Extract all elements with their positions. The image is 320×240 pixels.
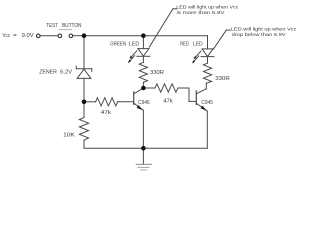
svg-text:LED: LED (129, 41, 139, 47)
svg-text:LED will light up when Vcc: LED will light up when Vcc (231, 26, 297, 32)
svg-text:drop below than 6.9V: drop below than 6.9V (232, 32, 287, 38)
svg-text:LED will light up when Vcc: LED will light up when Vcc (176, 4, 239, 10)
svg-text:=: = (13, 33, 17, 39)
svg-text:GREEN: GREEN (110, 41, 126, 47)
svg-text:330R: 330R (215, 76, 229, 82)
svg-text:RED: RED (180, 41, 188, 47)
svg-text:TEST: TEST (46, 23, 58, 29)
svg-text:ZENER: ZENER (39, 69, 57, 75)
svg-text:6.2V: 6.2V (60, 69, 72, 75)
svg-text:47k: 47k (163, 98, 173, 104)
svg-text:10K: 10K (63, 132, 75, 138)
svg-text:BUTTON: BUTTON (62, 23, 82, 29)
svg-text:C945: C945 (138, 100, 149, 106)
svg-text:330R: 330R (150, 70, 164, 76)
svg-text:C945: C945 (201, 100, 213, 106)
svg-text:9.0V: 9.0V (22, 33, 34, 39)
svg-text:47k: 47k (101, 110, 112, 116)
svg-text:Vcc: Vcc (2, 33, 10, 39)
svg-text:is more than 6.9V: is more than 6.9V (177, 10, 226, 16)
svg-text:LED: LED (193, 41, 203, 47)
